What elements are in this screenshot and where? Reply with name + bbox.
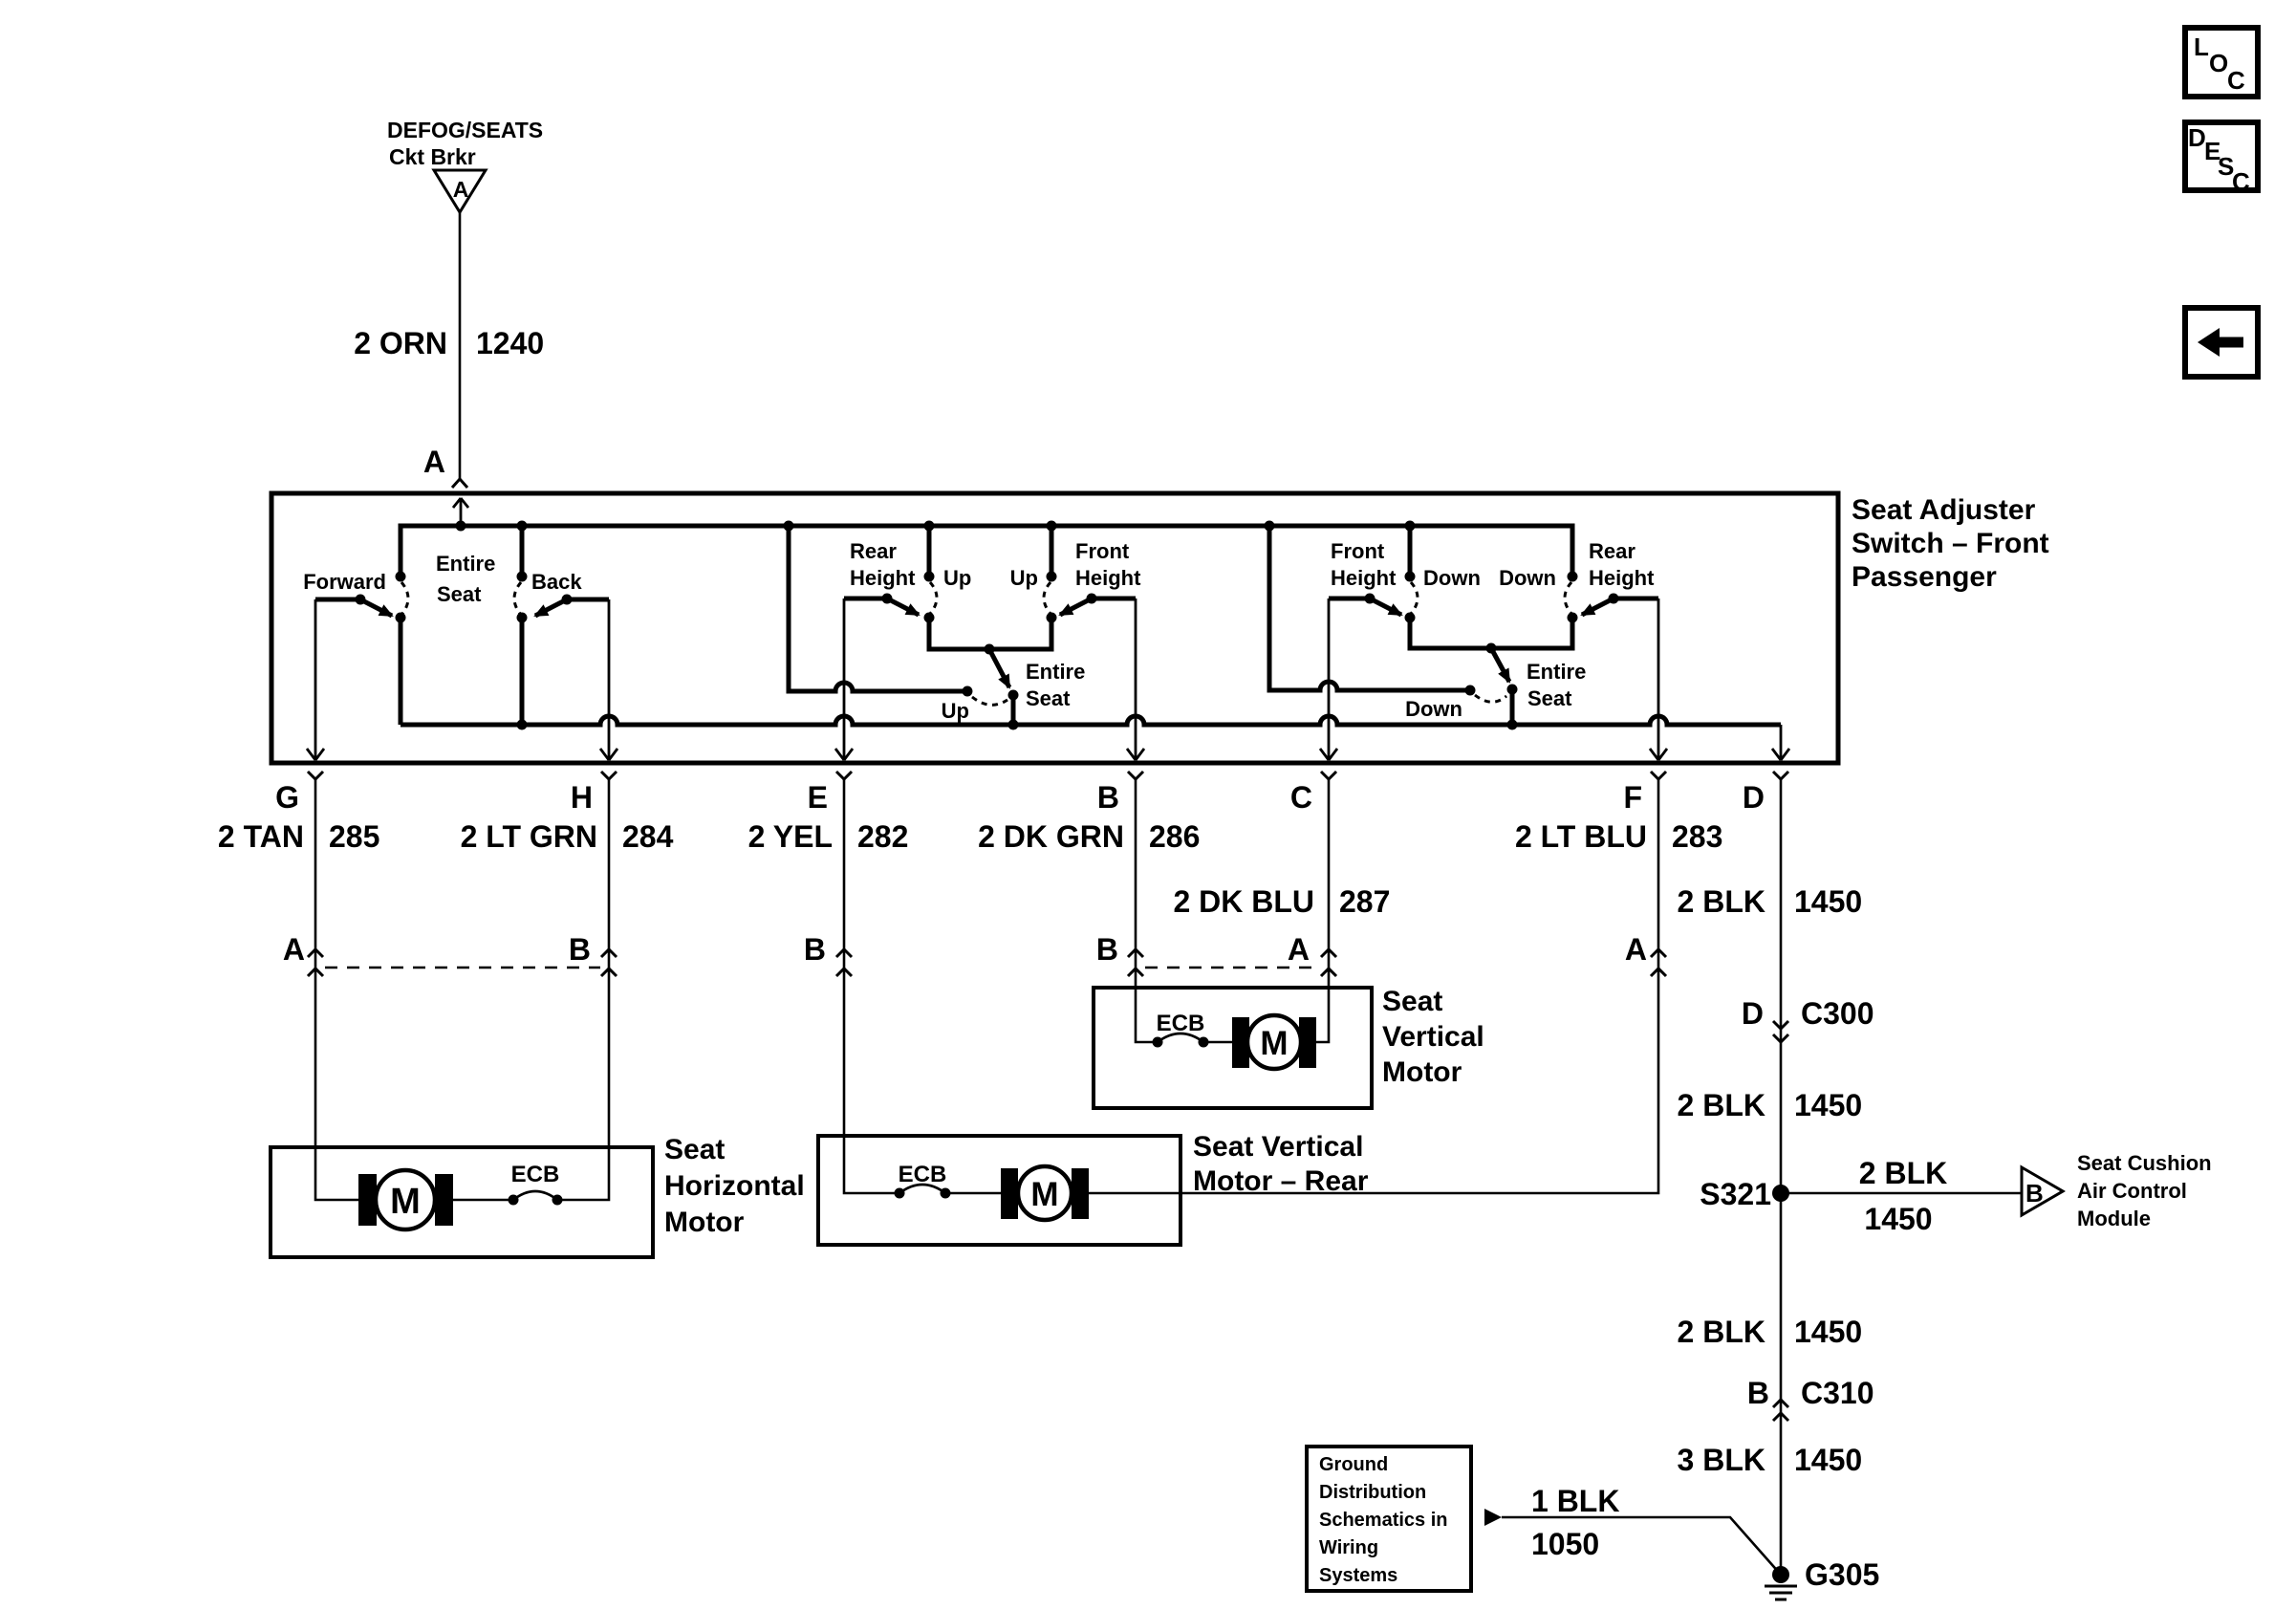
wire labels row 1 [218,819,1722,854]
switch Rear Height Up: feed from bus [927,526,932,577]
svg-text:Rear: Rear [1589,539,1635,563]
svg-text:C: C [2232,167,2250,196]
circuit breaker triangle connector A [434,170,486,212]
svg-text:Height: Height [1589,566,1655,590]
label 1 BLK 1050 [1531,1484,1619,1561]
label 3 BLK 1450 [1678,1443,1863,1477]
bus junction dots [456,521,1416,532]
ground distribution reference box [1307,1447,1471,1591]
switch Front Height Down: labels [1331,539,1481,590]
svg-text:Seat: Seat [437,582,482,606]
switch Front Height Up: blade wire to pin B [1096,597,1136,601]
switch Forward: dashed throw arc [401,582,408,615]
pin H arrow [600,599,617,760]
svg-text:1450: 1450 [1794,884,1862,919]
label Seat Horizontal Motor [664,1134,805,1238]
common ground net wire to pin D with hops [401,716,1781,725]
svg-text:Seat: Seat [664,1134,725,1165]
svg-text:1450: 1450 [1794,1443,1862,1477]
label 2 BLK 1450 branch [1859,1156,1947,1236]
wire pin G to horizontal motor [315,779,358,1200]
svg-text:2 TAN: 2 TAN [218,819,304,854]
svg-text:Motor: Motor [664,1207,745,1238]
svg-text:283: 283 [1672,819,1722,854]
svg-text:Down: Down [1499,566,1556,590]
wire pin H to horizontal motor ECB [557,779,609,1200]
svg-text:Seat: Seat [1026,686,1071,710]
wire ECB to motor M rear [945,1192,1001,1195]
svg-text:C: C [1290,780,1312,815]
icon box back-arrow [2185,308,2258,377]
pin B arrow [1127,598,1144,760]
svg-text:Horizontal: Horizontal [664,1170,805,1202]
svg-text:B: B [1096,932,1118,967]
svg-text:M: M [1260,1025,1288,1062]
switch Forward: contacts [356,572,406,623]
svg-text:2 DK BLU: 2 DK BLU [1173,884,1314,919]
svg-text:Motor: Motor [1382,1056,1462,1088]
pin letters below box [275,780,1765,815]
svg-text:1450: 1450 [1864,1202,1932,1236]
wire pin B to vertical motor ECB [1136,779,1158,1042]
switch Rear Height Up: blade arrow [887,598,919,615]
switch Front Height Up: labels [1010,539,1141,590]
svg-text:2 BLK: 2 BLK [1678,884,1765,919]
svg-text:D: D [2188,123,2206,152]
svg-text:Switch – Front: Switch – Front [1852,528,2049,559]
triangle connector B air control module [2022,1167,2063,1215]
label 2 BLK 1450 middle [1678,1088,1863,1122]
svg-text:D: D [1742,996,1764,1031]
label 2 ORN 1240 [354,326,544,360]
wire pin C to vertical motor [1316,779,1329,1042]
svg-text:A: A [453,177,469,202]
motor M rear vertical: brushes and rotor [1001,1166,1089,1220]
seat vertical motor box [1094,988,1372,1108]
svg-text:Seat: Seat [1382,986,1442,1017]
svg-text:A: A [1625,932,1647,967]
svg-text:O: O [2209,49,2228,77]
switch Front Height Up: blade arrow [1060,598,1092,615]
svg-text:M: M [390,1182,421,1222]
switch Rear Height Down: blade wire to pin F [1618,597,1658,601]
switch Front Height Down: blade arrow [1370,598,1401,615]
svg-text:1050: 1050 [1531,1527,1599,1561]
label Seat Vertical Motor [1382,986,1484,1088]
svg-text:Vertical: Vertical [1382,1021,1484,1053]
wire Back lower contact to common net [520,618,525,725]
svg-text:A: A [283,932,305,967]
svg-text:ECB: ECB [511,1162,560,1187]
ground G305 [1765,1557,1879,1599]
wire pin E to rear vertical motor ECB [844,779,899,1193]
switch Back: blade arrow [535,599,567,616]
connector chevrons on motor wires [308,949,1666,976]
svg-text:G305: G305 [1805,1557,1879,1592]
svg-text:F: F [1623,780,1642,815]
motor M horizontal: brushes and rotor [358,1170,453,1229]
wire Entire Seat Down contact to common net [1510,689,1515,725]
svg-text:B: B [1747,1376,1769,1410]
svg-text:2 LT GRN: 2 LT GRN [461,819,597,854]
svg-text:DEFOG/SEATS: DEFOG/SEATS [387,118,543,142]
svg-text:Height: Height [850,566,916,590]
svg-text:Seat: Seat [1527,686,1572,710]
wire Forward lower contact to common net [399,618,403,725]
svg-text:B: B [569,932,591,967]
svg-text:Seat Vertical: Seat Vertical [1193,1131,1363,1163]
svg-text:2 ORN: 2 ORN [354,326,447,360]
svg-text:A: A [1288,932,1310,967]
svg-text:B: B [2025,1179,2044,1207]
svg-text:H: H [571,780,593,815]
wire feed from bus to Entire Seat Up rest contact [789,526,967,691]
pin F arrow [1650,598,1667,760]
svg-text:Air Control: Air Control [2077,1179,2187,1203]
junction dot height-down common [1486,643,1497,654]
svg-text:Up: Up [942,699,969,723]
label 2 BLK 1450 lower [1678,1315,1863,1349]
switch Back: dashed throw arc [514,582,521,615]
svg-text:B: B [1097,780,1119,815]
seat adjuster switch box outline [271,493,1838,763]
label D C300 [1742,996,1874,1031]
svg-text:Wiring: Wiring [1319,1537,1378,1558]
label Seat Vertical Motor - Rear [1193,1131,1369,1197]
switch Back: blade wire to pin H [572,598,609,602]
switch Forward: blade arrow [360,599,392,616]
switch Rear Height Up: dashed throw arc [930,582,937,614]
svg-text:C300: C300 [1801,996,1874,1031]
wire label 2 BLK 1450 upper [1678,884,1863,919]
wire 1 BLK 1050 from ground distribution [1484,1509,1781,1575]
svg-text:1450: 1450 [1794,1315,1862,1349]
label Entire Seat (left) [436,552,495,606]
svg-text:2 BLK: 2 BLK [1859,1156,1947,1190]
svg-text:Entire: Entire [436,552,495,576]
svg-text:Up: Up [943,566,971,590]
switch Front Height Up: contacts [1047,572,1097,623]
svg-text:285: 285 [329,819,379,854]
switch Back: contacts [517,572,573,623]
svg-text:Entire: Entire [1026,660,1085,684]
wire feed from bus to Entire Seat Down rest contact [1269,526,1470,690]
svg-text:1 BLK: 1 BLK [1531,1484,1619,1518]
motor M vertical: brushes and rotor [1232,1015,1316,1069]
ECB rear vertical motor [895,1162,951,1199]
svg-text:Entire: Entire [1527,660,1586,684]
motor connector letters [283,932,1647,967]
switch Entire Seat Up: dashed throw arc [972,697,1007,705]
switch Rear Height Down: labels [1499,539,1655,590]
svg-text:D: D [1743,780,1765,815]
svg-text:2 YEL: 2 YEL [748,819,833,854]
svg-text:Module: Module [2077,1207,2151,1230]
switch Entire Seat Down: dashed throw arc [1475,695,1506,702]
connector C300 chevrons [1773,1021,1788,1042]
switch Rear Height Up: blade wire to pin E [844,597,883,601]
label Seat Cushion Air Control Module [2077,1151,2212,1230]
wire label 2 DK BLU 287 [1173,884,1390,919]
icon box LOC [2185,28,2258,97]
wire S321 to air control module [1781,1192,2022,1195]
svg-text:Forward: Forward [303,570,386,594]
switch Front Height Down: blade wire to pin C [1329,597,1366,601]
svg-text:Seat Cushion: Seat Cushion [2077,1151,2212,1175]
svg-text:287: 287 [1339,884,1390,919]
wire rear motor to pin F [1089,779,1658,1193]
svg-text:Up: Up [1010,566,1038,590]
connector fork at pin A [452,479,467,488]
switch Front Height Up: feed from bus [1050,526,1054,577]
pin G arrow [307,599,324,760]
label Entire Seat (right) [1527,660,1586,710]
switch Rear Height Up: labels [850,539,971,590]
svg-text:C310: C310 [1801,1376,1874,1410]
label B C310 [1747,1376,1874,1410]
dashed connector line B-A vertical motor [1145,967,1319,969]
splice S321 [1700,1177,1789,1211]
switch Front Height Down: feed from bus [1408,526,1413,577]
wire height-up common link [929,618,1051,649]
svg-text:Systems: Systems [1319,1565,1397,1586]
svg-text:Rear: Rear [850,539,897,563]
dashed connector line A-B horizontal motor [325,967,600,969]
pin D arrow [1772,725,1789,760]
svg-text:Front: Front [1331,539,1385,563]
label Seat Adjuster Switch - Front Passenger [1852,494,2049,593]
svg-text:282: 282 [857,819,908,854]
svg-text:G: G [275,780,299,815]
svg-text:Distribution: Distribution [1319,1482,1426,1503]
svg-text:Front: Front [1075,539,1130,563]
ECB vertical motor [1153,1011,1209,1048]
svg-text:A: A [423,445,445,479]
svg-text:1240: 1240 [476,326,544,360]
wire pin D ground run to G305 [1780,779,1783,1575]
junction dots on common net [517,720,1518,730]
pin A arrow inside box [453,498,468,526]
connector forks at box pins [308,772,1788,779]
switch Forward: blade wire from pin G [315,598,357,602]
pin C arrow [1320,598,1337,760]
switch Entire Seat Down: blade arrow from common [1491,648,1509,682]
svg-text:286: 286 [1149,819,1200,854]
circuit breaker DEFOG/SEATS label [387,118,543,169]
seat horizontal motor box [271,1147,653,1257]
svg-text:Schematics in: Schematics in [1319,1510,1448,1531]
seat vertical motor rear box [818,1136,1180,1245]
svg-text:Height: Height [1331,566,1397,590]
svg-text:Seat Adjuster: Seat Adjuster [1852,494,2036,526]
switch Front Height Down: dashed throw arc [1411,582,1418,614]
wire height-down common link [1410,618,1572,648]
svg-text:Back: Back [531,570,582,594]
svg-text:B: B [804,932,826,967]
svg-text:C: C [2227,66,2245,95]
wire 2 ORN 1240 from breaker to switch pin A [459,212,462,479]
switch Rear Height Down: blade arrow [1582,598,1614,615]
wire ECB to motor M vertical [1203,1041,1232,1044]
svg-text:Height: Height [1075,566,1141,590]
switch Entire Seat Up: contacts [963,686,1019,701]
svg-text:2 BLK: 2 BLK [1678,1088,1765,1122]
switch Back: feed from bus [520,526,525,577]
svg-text:Ground: Ground [1319,1454,1388,1475]
switch Rear Height Down: contacts [1568,572,1619,623]
svg-text:2 BLK: 2 BLK [1678,1315,1765,1349]
bus wire B+ inside box [401,526,1572,577]
switch Rear Height Down: dashed throw arc [1565,582,1571,614]
svg-text:Ckt Brkr: Ckt Brkr [389,144,476,169]
label Entire Seat (middle) [1026,660,1085,710]
svg-text:2 LT BLU: 2 LT BLU [1515,819,1647,854]
svg-text:Passenger: Passenger [1852,561,1997,593]
switch Entire Seat Up: blade arrow from common [989,649,1009,687]
svg-text:1450: 1450 [1794,1088,1862,1122]
icon box DESC [2185,122,2258,196]
wire motor to ECB [453,1199,513,1202]
svg-text:Down: Down [1423,566,1481,590]
switch Front Height Down: contacts [1365,572,1416,623]
svg-text:L: L [2194,33,2209,61]
ECB horizontal motor [509,1162,563,1206]
svg-text:E: E [808,780,828,815]
svg-text:S321: S321 [1700,1177,1771,1211]
switch Entire Seat Down: contacts [1465,685,1518,696]
wire Entire Seat Up contact to common net [1011,695,1016,725]
switch Front Height Up: dashed throw arc [1044,582,1051,614]
junction dot height-up common [985,644,995,655]
switch Rear Height Up: contacts [882,572,935,623]
svg-text:Down: Down [1405,697,1462,721]
svg-text:284: 284 [622,819,674,854]
svg-text:3 BLK: 3 BLK [1678,1443,1765,1477]
svg-text:M: M [1030,1176,1058,1213]
pin E arrow [835,598,853,760]
svg-text:2 DK GRN: 2 DK GRN [978,819,1124,854]
connector C310 chevrons [1773,1400,1788,1421]
